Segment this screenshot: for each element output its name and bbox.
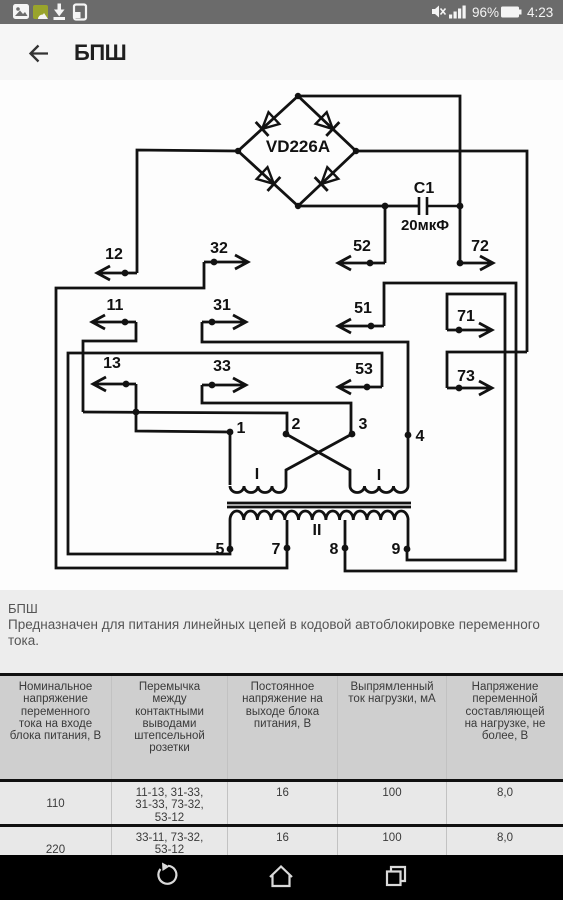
node terminal 7 — [284, 545, 291, 552]
node contact 32 — [211, 259, 218, 266]
contact 51 arrow — [338, 319, 384, 333]
contact 32 arrow — [204, 255, 248, 269]
contact 13 arrow — [93, 377, 136, 391]
node C1 left junction — [382, 203, 389, 210]
node contact 72 — [457, 260, 464, 267]
wire terminal 3 cross to left winding — [286, 434, 352, 486]
contact 33 arrow — [202, 378, 246, 392]
node contact 12 — [122, 270, 129, 277]
node bridge top vertex — [295, 93, 301, 99]
wire bridge top to contact 72 — [298, 96, 460, 263]
svg-text:5: 5 — [216, 541, 225, 558]
svg-text:II: II — [313, 522, 322, 539]
svg-text:72: 72 — [471, 238, 489, 255]
node junction A — [133, 409, 140, 416]
svg-text:I: I — [255, 466, 259, 483]
node terminal 2 — [283, 431, 290, 438]
node terminal 5 — [227, 546, 234, 553]
diode VD3 bottom-left — [256, 166, 281, 191]
svg-text:52: 52 — [353, 238, 371, 255]
svg-text:53: 53 — [355, 361, 373, 378]
wire contact 51 to terminal 8 — [345, 283, 516, 571]
wire contact 13 to junction A — [135, 384, 138, 412]
wire contact 73 to bridge right — [447, 352, 527, 388]
svg-text:11: 11 — [107, 297, 124, 314]
node contact 51 — [368, 323, 375, 330]
node terminal 1 — [227, 429, 234, 436]
svg-text:2: 2 — [292, 416, 301, 433]
svg-text:1: 1 — [237, 420, 246, 437]
status icon battery — [501, 7, 522, 18]
svg-text:13: 13 — [103, 355, 121, 372]
svg-text:9: 9 — [392, 541, 401, 558]
node contact 52 — [367, 260, 374, 267]
node bridge left vertex — [235, 148, 241, 154]
diode VD1 top-left — [256, 111, 281, 136]
status icon gallery — [33, 5, 48, 19]
wire terminal 2 cross to right winding — [286, 434, 350, 486]
wire bridge right to right column — [356, 151, 527, 352]
svg-text:7: 7 — [272, 541, 281, 558]
diode VD4 bottom-right — [315, 166, 340, 191]
node bridge right vertex — [353, 148, 359, 154]
transformer secondary winding II — [230, 511, 408, 520]
contact 71 arrow — [447, 323, 492, 337]
svg-text:32: 32 — [210, 240, 228, 257]
wire secondary tap to terminal 8 — [344, 520, 347, 548]
svg-text:I: I — [377, 467, 381, 484]
node terminal 9 — [404, 546, 411, 553]
nav icon back — [158, 863, 176, 884]
capacitor C1 — [419, 197, 460, 215]
contact 72 arrow — [460, 256, 493, 270]
wire junction A to terminal 1 — [136, 412, 230, 485]
status icon screenshot — [74, 5, 86, 20]
contact 12 arrow — [97, 266, 137, 280]
svg-text:51: 51 — [354, 300, 372, 317]
wire contact 31 to terminal 4 — [202, 322, 408, 435]
contact 52 arrow — [338, 256, 385, 270]
node terminal 3 — [349, 431, 356, 438]
wire contact 53 to terminal 5 — [68, 353, 382, 554]
node contact 53 — [364, 384, 371, 391]
appbar back arrow — [31, 46, 49, 62]
contact 73 arrow — [447, 381, 492, 395]
wire secondary left end to terminal 5 — [229, 520, 232, 549]
wire contact 71 to terminal 9 — [407, 294, 505, 560]
svg-text:20мкФ: 20мкФ — [401, 217, 449, 234]
svg-text:31: 31 — [213, 297, 231, 314]
transformer primary winding I left — [230, 486, 286, 493]
node contact 73 — [456, 385, 463, 392]
contact 11 arrow — [92, 315, 136, 329]
node contact 71 — [456, 327, 463, 334]
wire secondary tap to terminal 7 — [286, 520, 289, 548]
status icon mute — [432, 6, 446, 18]
svg-text:33: 33 — [213, 358, 231, 375]
svg-text:8: 8 — [330, 541, 339, 558]
svg-text:3: 3 — [359, 416, 368, 433]
wire contact 33 to terminal 3 — [202, 385, 351, 434]
svg-text:4: 4 — [416, 428, 425, 445]
wire contact 11 to junction A — [83, 322, 136, 412]
node C1 right junction — [457, 203, 464, 210]
node contact 31 — [209, 319, 216, 326]
wire bridge left to contact 12 — [137, 150, 238, 273]
wire bridge bottom to C1 — [298, 205, 418, 208]
status icon signal — [449, 6, 466, 19]
status icon photo — [13, 4, 29, 19]
node contact 13 — [123, 381, 130, 388]
node bridge bottom vertex — [295, 203, 301, 209]
diode bridge VD226A diamond — [238, 96, 356, 206]
svg-text:73: 73 — [457, 368, 475, 385]
svg-text:C1: C1 — [414, 180, 435, 197]
node contact 33 — [209, 382, 216, 389]
node contact 11 — [122, 319, 129, 326]
transformer primary winding I right — [350, 486, 408, 493]
diode VD2 top-right — [315, 111, 340, 136]
node terminal 4 — [405, 432, 412, 439]
svg-text:4:23: 4:23 — [527, 5, 553, 20]
wire junction A horizontal to terminal 2 — [83, 412, 287, 434]
nav icon recents — [387, 867, 405, 885]
svg-text:VD226A: VD226A — [266, 137, 330, 156]
wire contact 52 to C1 junction — [384, 206, 387, 263]
svg-text:71: 71 — [457, 308, 475, 325]
svg-text:12: 12 — [105, 246, 123, 263]
node terminal 8 — [342, 545, 349, 552]
wire contact 32 to terminal 7 — [56, 262, 287, 568]
contact 53 arrow — [338, 380, 382, 394]
contact 31 arrow — [202, 315, 246, 329]
wire terminal 4 down to right winding — [407, 435, 410, 486]
status icon download — [54, 4, 65, 20]
nav icon home — [270, 867, 292, 887]
svg-text:96%: 96% — [472, 5, 499, 20]
wire secondary right end to terminal 9 — [407, 520, 410, 549]
transformer core — [227, 503, 411, 507]
